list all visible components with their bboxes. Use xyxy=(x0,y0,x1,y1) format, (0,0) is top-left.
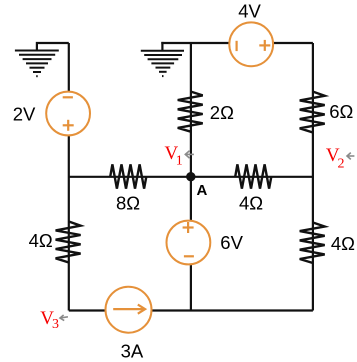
svg-text:1: 1 xyxy=(176,154,183,169)
ground (top-left) xyxy=(15,51,59,77)
wire: ground1 link horizontal xyxy=(37,43,69,51)
resistor 6ohm xyxy=(300,92,325,133)
wire: left vertical upper segment xyxy=(68,43,70,92)
4V minus sign (vertical bar) xyxy=(236,41,238,51)
label 4V xyxy=(238,0,261,21)
resistor 8ohm xyxy=(110,164,146,188)
label 3A xyxy=(121,341,144,362)
svg-text:6Ω: 6Ω xyxy=(329,101,353,122)
wire: ground2 link stub xyxy=(161,42,163,51)
wire: top horizontal left of 4V source xyxy=(161,42,229,44)
svg-text:4Ω: 4Ω xyxy=(331,233,355,254)
svg-text:4Ω: 4Ω xyxy=(29,230,53,251)
wire: middle horizontal xyxy=(69,176,313,178)
label V3 (red) xyxy=(40,308,59,332)
svg-text:4V: 4V xyxy=(238,0,261,21)
resistor 2ohm xyxy=(178,92,203,132)
label 4ohm middle xyxy=(239,193,263,214)
label 8ohm xyxy=(116,193,140,214)
wire: middle vertical upper segment xyxy=(190,43,192,221)
annotation arrow at V3 xyxy=(60,315,68,321)
label 2V xyxy=(13,103,36,124)
label V2 (red) xyxy=(326,145,345,171)
label 4ohm left xyxy=(29,230,53,251)
current source 3A circle xyxy=(106,287,152,333)
wire: middle vertical lower segment xyxy=(190,264,192,310)
svg-text:3: 3 xyxy=(52,317,59,332)
voltage source 2V circle xyxy=(46,92,90,136)
svg-text:2V: 2V xyxy=(13,103,36,124)
annotation arrow at V2 xyxy=(347,153,354,160)
svg-text:6V: 6V xyxy=(220,232,243,253)
resistor 4ohm right xyxy=(300,223,325,264)
2V plus sign xyxy=(63,120,74,131)
6V minus sign xyxy=(184,255,194,257)
ground (top-middle) xyxy=(141,51,184,76)
voltage source 6V circle xyxy=(167,221,211,265)
svg-text:2Ω: 2Ω xyxy=(210,102,234,123)
svg-text:A: A xyxy=(197,182,208,199)
svg-text:3A: 3A xyxy=(121,341,144,362)
label V1 (red) xyxy=(165,143,183,169)
resistor 4ohm left xyxy=(56,222,81,263)
label 4ohm right xyxy=(331,233,355,254)
6V plus sign xyxy=(183,222,194,233)
svg-text:8Ω: 8Ω xyxy=(116,193,140,214)
4V plus sign xyxy=(259,40,270,51)
3A arrow xyxy=(113,305,145,314)
label 6V xyxy=(220,232,243,253)
label 2ohm xyxy=(210,102,234,123)
wire: right vertical xyxy=(312,43,314,311)
2V minus sign xyxy=(63,96,73,98)
label 6ohm xyxy=(329,101,353,122)
wire: bottom horizontal left of 3A xyxy=(69,309,106,311)
resistor 4ohm middle xyxy=(235,164,271,188)
voltage source 4V circle xyxy=(229,22,273,66)
wire: bottom horizontal right of 3A xyxy=(151,309,313,311)
wire: left vertical lower segment xyxy=(68,135,70,310)
node A dot xyxy=(186,172,195,181)
label A xyxy=(197,182,208,199)
annotation arrow at V1 xyxy=(185,151,194,158)
svg-text:4Ω: 4Ω xyxy=(239,193,263,214)
svg-text:2: 2 xyxy=(338,157,345,172)
wire: top horizontal right of 4V source xyxy=(273,42,313,44)
